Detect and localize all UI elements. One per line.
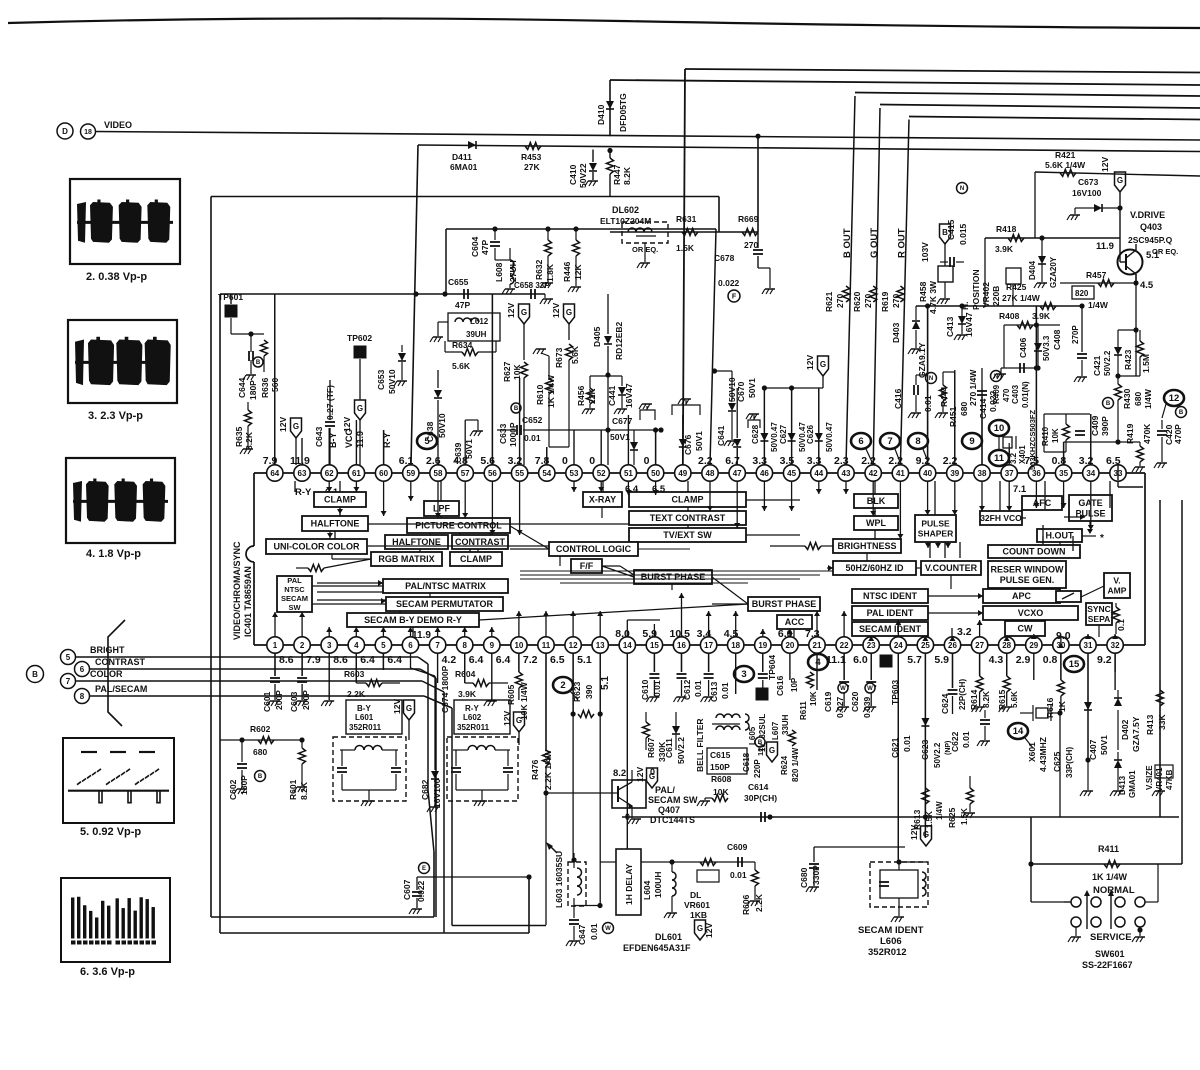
svg-text:R605: R605: [506, 684, 516, 705]
svg-text:270P: 270P: [1071, 325, 1080, 344]
svg-text:C638: C638: [425, 421, 435, 442]
svg-text:26: 26: [948, 641, 957, 650]
wire pin54 up: [546, 447, 548, 465]
svg-text:5.6K 1/4W: 5.6K 1/4W: [1045, 160, 1086, 170]
capacitor C628 50V0.47: [763, 388, 765, 432]
block ramp: [1056, 591, 1081, 602]
svg-text:21: 21: [813, 641, 822, 650]
resistor R456 22K: [589, 376, 591, 388]
svg-text:R413: R413: [1145, 714, 1155, 735]
svg-text:50V0.47: 50V0.47: [770, 422, 779, 452]
svg-text:6: 6: [858, 436, 863, 447]
wire contrast clamp2: [477, 549, 479, 552]
wire pin 27 bottom stub: [979, 653, 981, 676]
svg-text:6: 6: [408, 641, 413, 650]
wire B OUT column: [846, 96, 855, 465]
block HALFTONE 1: [302, 516, 368, 531]
svg-text:5.6K: 5.6K: [570, 345, 580, 364]
svg-text:6MA01: 6MA01: [450, 162, 478, 172]
svg-text:5.6K: 5.6K: [452, 361, 471, 371]
block BURST PHASE 2: [748, 597, 820, 611]
pin 10: [511, 637, 527, 653]
svg-text:SW601: SW601: [1095, 949, 1125, 959]
resistor R604 3.9K: [473, 680, 489, 687]
svg-text:0.01: 0.01: [902, 735, 912, 752]
svg-text:55: 55: [515, 469, 524, 478]
pin 64: [267, 465, 283, 481]
svg-text:L601: L601: [355, 713, 374, 722]
fusible resistor R458: [938, 266, 953, 282]
svg-text:D402: D402: [1120, 719, 1130, 740]
wire xray link: [601, 507, 603, 518]
inductor L606 SECAM IDENT: [870, 862, 928, 907]
svg-text:VIDEO: VIDEO: [104, 120, 132, 130]
svg-text:22: 22: [840, 641, 849, 650]
svg-text:2.2K: 2.2K: [754, 893, 764, 912]
svg-text:C680: C680: [799, 867, 809, 888]
resistor R447 vertical: [609, 150, 611, 158]
node 3 oval: [734, 666, 754, 682]
svg-text:8.2K: 8.2K: [622, 166, 632, 185]
node 8 callout: [75, 689, 90, 704]
svg-text:R606: R606: [741, 894, 751, 915]
node 18 callout: [81, 124, 96, 139]
svg-text:C604: C604: [470, 236, 480, 257]
wire IC internal stub: [464, 481, 466, 518]
pin 30: [1053, 637, 1069, 653]
svg-text:43: 43: [842, 469, 851, 478]
wire G OUT column: [873, 108, 880, 465]
svg-text:28: 28: [1002, 641, 1011, 650]
svg-text:10K: 10K: [1051, 428, 1060, 443]
wire L7 drop x=418 to pin59: [411, 145, 418, 473]
control lines: [368, 523, 629, 525]
block RESER WINDOW PULSE GEN: [988, 561, 1066, 588]
svg-text:B: B: [1106, 401, 1111, 407]
pin 61: [348, 465, 364, 481]
block F/F: [571, 559, 602, 573]
svg-text:470K: 470K: [1142, 423, 1152, 444]
ground bracket C670: [748, 420, 760, 428]
svg-text:C406: C406: [1018, 337, 1028, 358]
svg-text:16V100: 16V100: [1072, 188, 1102, 198]
svg-text:R453: R453: [521, 152, 542, 162]
pin 13: [592, 637, 608, 653]
pin 37: [1001, 465, 1017, 481]
wire IC internal stub bottom: [355, 627, 357, 637]
svg-text:R619: R619: [880, 291, 890, 312]
wire pin 10 bottom stub: [518, 653, 520, 672]
svg-text:C652: C652: [522, 415, 543, 425]
wire R457 row: [1060, 282, 1136, 284]
power flag 12V c: [818, 356, 829, 376]
wire bottom rail A: [211, 916, 434, 918]
block CW: [1005, 621, 1045, 636]
wire ic hline 4: [560, 582, 748, 584]
wire IC internal stub bottom: [518, 611, 520, 637]
svg-text:50HZ/60HZ ID: 50HZ/60HZ ID: [845, 563, 904, 573]
wire IC internal stub bottom: [924, 636, 926, 637]
svg-text:10K: 10K: [809, 691, 818, 706]
svg-text:180P: 180P: [239, 775, 249, 795]
resistor R632 1.8K: [547, 229, 549, 240]
svg-text:0: 0: [562, 455, 568, 467]
svg-text:10: 10: [994, 423, 1005, 434]
svg-text:D404: D404: [1028, 260, 1037, 280]
wire IC internal stub: [410, 481, 412, 501]
capacitor C615 150P: [707, 748, 747, 774]
svg-text:39: 39: [950, 469, 959, 478]
wire bottom rail A up: [433, 852, 435, 917]
pin 26: [944, 637, 960, 653]
svg-text:G: G: [521, 308, 527, 317]
wire C604 box right: [710, 229, 716, 465]
wire pin 38 stub: [981, 389, 983, 465]
wire IC internal stub bottom: [843, 611, 845, 637]
wire longctl 1: [559, 556, 561, 566]
svg-text:B: B: [942, 228, 948, 237]
svg-text:D: D: [62, 127, 68, 136]
svg-text:32: 32: [1111, 641, 1120, 650]
pin 62: [321, 465, 337, 481]
svg-text:C633: C633: [498, 423, 508, 444]
wire IC internal stub: [1008, 481, 1010, 511]
pin 55: [511, 465, 527, 481]
svg-text:220B: 220B: [991, 286, 1001, 306]
pin 20: [782, 637, 798, 653]
svg-text:5.1: 5.1: [577, 654, 592, 666]
svg-text:R-Y: R-Y: [295, 487, 312, 498]
wire pin13 further down: [599, 714, 601, 905]
wire control logic feed: [638, 548, 690, 550]
switch SW601: [1071, 897, 1081, 907]
block ACC: [777, 615, 812, 629]
svg-text:R410: R410: [1041, 426, 1050, 446]
svg-text:53: 53: [570, 469, 579, 478]
wire pin60 up: [383, 430, 385, 465]
power flag 12V pin61: [355, 400, 366, 420]
svg-text:NORMAL: NORMAL: [1093, 885, 1135, 896]
svg-text:3.9K: 3.9K: [458, 689, 477, 699]
pin 52: [593, 465, 609, 481]
svg-text:0.01: 0.01: [524, 433, 541, 443]
svg-text:12V: 12V: [1100, 157, 1110, 172]
resistor R620 270: [870, 286, 877, 302]
power flag 12V pin63: [291, 418, 302, 438]
svg-text:C601: C601: [262, 691, 272, 712]
svg-text:B OUT: B OUT: [842, 228, 853, 258]
pin 23: [863, 637, 879, 653]
pin 8: [457, 637, 473, 653]
ground pin9: [487, 700, 497, 702]
svg-text:5. 0.92 Vp-p: 5. 0.92 Vp-p: [80, 826, 141, 838]
svg-text:2.9: 2.9: [1016, 654, 1031, 666]
pin 60: [375, 465, 391, 481]
resistor R605 10K: [518, 653, 520, 672]
svg-text:C408: C408: [1052, 329, 1062, 350]
junction TP601 rail x445: [442, 291, 447, 296]
svg-text:12V: 12V: [551, 303, 561, 318]
wire C604 box top: [446, 228, 716, 230]
svg-text:RGB MATRIX: RGB MATRIX: [378, 554, 434, 564]
capacitor C641 50V10: [712, 368, 717, 373]
resistor R673 5.6K: [566, 344, 573, 360]
svg-text:R624: R624: [780, 755, 789, 775]
resistor R614 8.2K: [979, 653, 981, 676]
pin 22: [836, 637, 852, 653]
svg-text:SECAM B-Y DEMO R-Y: SECAM B-Y DEMO R-Y: [364, 615, 462, 625]
svg-text:270: 270: [863, 294, 873, 308]
wire y905 rail: [574, 905, 600, 907]
svg-text:R421: R421: [1055, 150, 1076, 160]
wire R418 row: [985, 237, 1120, 239]
pin 36: [1028, 465, 1044, 481]
resistor R634 5.6K: [462, 349, 478, 356]
svg-text:680: 680: [253, 747, 267, 757]
wire boundary left: [210, 197, 212, 918]
svg-text:D403: D403: [891, 322, 901, 343]
waveform 4 box: [66, 458, 175, 543]
svg-text:2.2K: 2.2K: [347, 689, 366, 699]
wire C409 rail: [1063, 442, 1065, 465]
svg-text:TP602: TP602: [347, 333, 372, 343]
wire pin 9 bottom stub: [491, 653, 493, 700]
svg-text:470: 470: [1002, 388, 1011, 402]
IC401 outline right: [1144, 473, 1146, 645]
wire picture halftone2: [429, 533, 431, 535]
wire IC internal stub bottom: [735, 611, 737, 637]
svg-text:3.9K: 3.9K: [995, 244, 1014, 254]
wire pin15 link: [653, 624, 655, 637]
wire pin12 down: [572, 653, 574, 714]
svg-text:G: G: [1117, 176, 1123, 185]
wire ctl to blocks: [510, 548, 549, 550]
svg-text:1K 1/4W: 1K 1/4W: [1092, 872, 1128, 882]
svg-text:C620: C620: [850, 691, 860, 712]
svg-text:D413: D413: [1118, 775, 1127, 795]
wire rgb out: [332, 558, 371, 560]
svg-text:0.022: 0.022: [416, 880, 426, 902]
svg-text:2: 2: [560, 680, 565, 691]
svg-text:25: 25: [921, 641, 930, 650]
svg-text:DL602: DL602: [612, 205, 639, 215]
svg-text:R627: R627: [502, 361, 512, 382]
svg-text:30P(CH): 30P(CH): [744, 793, 777, 803]
svg-text:C676: C676: [683, 434, 693, 455]
svg-text:27UH: 27UH: [508, 260, 518, 282]
svg-text:59: 59: [406, 469, 415, 478]
block VCXO: [983, 606, 1078, 620]
wire IC internal stub bottom: [274, 612, 276, 637]
svg-text:1.5M: 1.5M: [1141, 354, 1151, 373]
svg-text:220P: 220P: [753, 759, 762, 778]
wire input 8: [90, 695, 425, 697]
wire ff burst: [602, 565, 620, 567]
wire pin 18 bottom stub: [735, 653, 737, 694]
svg-text:3.9K: 3.9K: [1032, 311, 1051, 321]
wire pin 50 stub: [655, 430, 657, 465]
wire pin 34 stub: [1090, 414, 1092, 465]
wire burst1 down: [671, 584, 673, 590]
wire pin 45 stub: [791, 388, 793, 465]
svg-text:0.01: 0.01: [589, 923, 599, 940]
svg-text:L612: L612: [470, 317, 489, 326]
svg-text:C603: C603: [289, 691, 299, 712]
svg-text:49: 49: [678, 469, 687, 478]
svg-text:B: B: [1179, 410, 1184, 416]
svg-text:R OUT: R OUT: [896, 228, 907, 258]
svg-text:42: 42: [869, 469, 878, 478]
svg-text:37: 37: [1005, 469, 1014, 478]
waveform 5 box: [63, 738, 174, 823]
svg-text:1/4W: 1/4W: [935, 801, 944, 820]
svg-text:200P: 200P: [274, 690, 284, 710]
svg-text:R669: R669: [738, 214, 759, 224]
svg-text:C639: C639: [453, 442, 463, 463]
inductor L612 39UH: [448, 313, 500, 341]
wire IC internal stub: [519, 481, 521, 535]
pin 47: [729, 465, 745, 481]
svg-text:17: 17: [704, 641, 713, 650]
junction R457: [1133, 280, 1138, 285]
wire pulse shaper arrows: [925, 543, 931, 548]
capacitor C676 50V1: [682, 448, 684, 465]
test point TP602: [354, 346, 367, 359]
svg-text:SECAM IDENT: SECAM IDENT: [858, 925, 924, 936]
svg-text:8.2K: 8.2K: [244, 431, 254, 450]
pin 59: [403, 465, 419, 481]
svg-text:33UH: 33UH: [781, 714, 790, 735]
wire IC internal stub bottom: [572, 611, 574, 637]
block CONTROL LOGIC: [549, 542, 638, 556]
wire pin 64 stub: [274, 294, 276, 465]
pin 27: [971, 637, 987, 653]
svg-text:16V100: 16V100: [432, 778, 442, 808]
node 14 oval: [1008, 723, 1028, 739]
capacitor C655 47P: [463, 289, 465, 299]
wire pin18 hook: [380, 693, 736, 695]
capacitor C620 0.039: [870, 653, 872, 680]
wire pin40 up: [927, 306, 929, 465]
svg-text:R632: R632: [534, 259, 544, 280]
svg-text:270: 270: [835, 294, 845, 308]
svg-text:C421: C421: [1092, 355, 1102, 376]
svg-text:62: 62: [325, 469, 334, 478]
svg-text:41: 41: [896, 469, 905, 478]
wire TP602 down: [359, 359, 361, 400]
node 9 oval: [962, 433, 982, 449]
wire x=758 drop: [757, 136, 759, 232]
svg-text:0.039: 0.039: [862, 696, 872, 718]
block UNI-COLOR COLOR: [266, 539, 367, 554]
ground L602: [456, 789, 508, 791]
wire brightness 50hz: [866, 553, 868, 561]
svg-text:H.: H.: [960, 302, 970, 311]
svg-text:3.2: 3.2: [1009, 452, 1018, 464]
svg-text:R615: R615: [997, 689, 1007, 710]
node 7 oval: [880, 433, 900, 449]
wire IC internal stub bottom: [464, 627, 466, 637]
wire pin 30 bottom stub: [1060, 653, 1062, 680]
svg-text:R409: R409: [992, 384, 1001, 404]
svg-text:C682: C682: [420, 779, 430, 800]
waveform 3 box: [68, 320, 177, 403]
svg-text:BURST PHASE: BURST PHASE: [752, 599, 817, 609]
resistor R453: [525, 143, 541, 150]
wire pin 19 bottom stub: [762, 653, 764, 672]
wire pin 16 bottom stub: [681, 653, 683, 672]
wire pin 17 bottom stub: [708, 653, 710, 672]
block CONTRAST: [452, 535, 508, 549]
resistor R635: [247, 402, 249, 410]
wire pin 53 stub: [573, 430, 575, 465]
wire R602 row: [220, 739, 302, 741]
wire pin 37 stub: [1008, 449, 1010, 465]
svg-text:C674 1800P: C674 1800P: [440, 665, 450, 713]
svg-text:G: G: [293, 422, 299, 431]
svg-text:352R011: 352R011: [349, 723, 382, 732]
svg-text:34: 34: [1086, 469, 1095, 478]
svg-text:0: 0: [644, 455, 650, 467]
svg-text:10K 1/4W: 10K 1/4W: [519, 681, 529, 720]
wire cw link: [1024, 620, 1026, 636]
svg-text:5.9: 5.9: [934, 654, 949, 666]
svg-text:R607: R607: [646, 737, 656, 758]
svg-text:R602: R602: [250, 724, 271, 734]
svg-text:R411: R411: [1098, 844, 1119, 854]
power flag 12V DL: [695, 920, 706, 940]
svg-text:12V: 12V: [909, 825, 919, 840]
VR402 box: [1006, 268, 1021, 284]
svg-text:G: G: [697, 924, 703, 933]
inductor L608 27UH: [510, 260, 514, 268]
wire gate pulse down: [1089, 521, 1091, 528]
svg-text:1/4W: 1/4W: [1143, 388, 1153, 409]
op-amp U1 IC401 outline top: [254, 472, 1145, 474]
capacitor C626 50V0.47: [818, 388, 820, 432]
svg-text:6.0: 6.0: [853, 654, 868, 666]
svg-text:PULSE GEN.: PULSE GEN.: [1000, 575, 1055, 585]
pin 2: [294, 637, 310, 653]
svg-text:8: 8: [80, 692, 85, 701]
power flag 12V L602: [514, 712, 525, 732]
svg-text:22K: 22K: [587, 388, 597, 404]
svg-text:50V10: 50V10: [437, 413, 447, 438]
svg-text:ELT10Z204M: ELT10Z204M: [600, 216, 651, 226]
ground bracket C677: [640, 410, 655, 420]
wire IC internal stub bottom: [491, 627, 493, 637]
wire IC internal stub bottom: [437, 627, 439, 637]
block X-RAY: [583, 492, 622, 507]
svg-text:6.5: 6.5: [550, 654, 565, 666]
node 5 callout: [61, 650, 76, 665]
IC401 outline left with notch: [253, 473, 255, 546]
wire pin44 flag drop: [822, 388, 824, 392]
svg-text:3: 3: [741, 669, 746, 680]
svg-text:G: G: [820, 360, 826, 369]
wire pin 26 bottom stub: [952, 653, 954, 688]
wire pin 13 bottom stub: [599, 653, 601, 714]
svg-text:470P: 470P: [1173, 424, 1183, 444]
wire IC internal stub: [1035, 481, 1037, 508]
svg-text:DFD05TG: DFD05TG: [618, 93, 628, 132]
svg-text:R447: R447: [612, 164, 622, 185]
wire IC internal stub bottom: [1033, 634, 1035, 637]
svg-text:14: 14: [1013, 726, 1024, 737]
wire pin 25 bottom stub: [924, 653, 926, 838]
pin 7: [429, 637, 445, 653]
svg-text:16V47: 16V47: [624, 383, 634, 408]
